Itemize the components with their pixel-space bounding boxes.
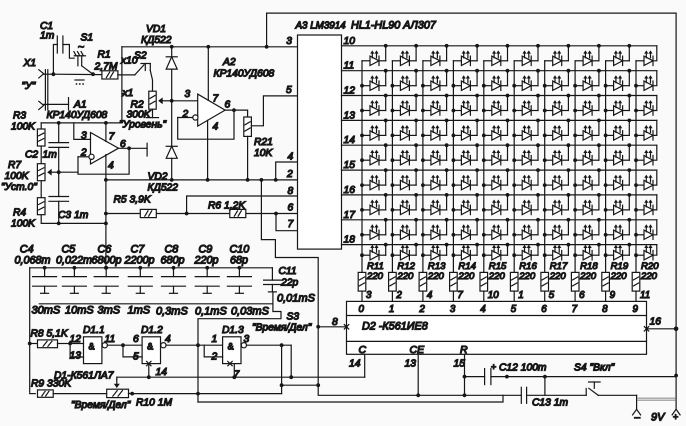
LM3914 pin4 wire: [276, 162, 298, 180]
svg-text:10: 10: [344, 36, 356, 47]
coax shield lines: [44, 70, 46, 110]
svg-text:680p: 680p: [161, 255, 185, 267]
svg-text:R9 330K: R9 330K: [31, 379, 72, 390]
LED HL28: [575, 94, 601, 116]
svg-text:0,068m: 0,068m: [15, 255, 51, 267]
op-amp A1 KR140UD608: [91, 133, 119, 165]
LED HL17: [545, 69, 571, 91]
D2 pin 2 stub: [391, 291, 393, 301]
LED HL51: [362, 168, 388, 190]
bus 13 right wrap to last LED: [653, 120, 657, 135]
svg-text:1m: 1m: [40, 31, 55, 42]
svg-text:5: 5: [133, 352, 139, 363]
svg-text:&: &: [147, 342, 153, 352]
svg-text:3: 3: [185, 89, 191, 100]
svg-text:R1: R1: [98, 50, 111, 61]
bus 14 right wrap to last LED: [653, 145, 657, 160]
LED HL26: [514, 94, 540, 116]
row bus pin 11: [342, 70, 657, 72]
svg-text:7: 7: [213, 94, 220, 105]
svg-text:S3: S3: [287, 312, 300, 323]
svg-text:4: 4: [480, 304, 486, 315]
D1.3 input wires pins 1 2: [204, 345, 222, 357]
svg-text:9: 9: [610, 290, 616, 301]
svg-text:R4: R4: [13, 208, 26, 219]
svg-text:1: 1: [212, 334, 218, 345]
svg-text:100K: 100K: [5, 171, 30, 182]
LED HL9: [606, 44, 632, 66]
A1 feedback loop: [78, 148, 129, 174]
svg-text:~: ~: [78, 41, 84, 53]
LED HL76: [514, 218, 540, 239]
D2 pin 6 stub: [574, 291, 576, 301]
svg-text:3: 3: [286, 36, 292, 47]
svg-text:A3 LM3914: A3 LM3914: [295, 21, 347, 32]
LED HL60: [636, 175, 653, 190]
LED HL56: [514, 168, 540, 190]
push switch S4 on: [585, 389, 587, 396]
svg-text:КД522: КД522: [141, 35, 172, 46]
LED HL25: [484, 94, 510, 116]
svg-text:4: 4: [213, 122, 219, 133]
D2 pin 10 stub: [483, 291, 485, 301]
battery 9V: [636, 395, 638, 409]
LM3914 pin7 wire: [276, 214, 298, 231]
D1.2 output pin 4: [166, 344, 223, 346]
svg-text:6: 6: [133, 334, 139, 345]
svg-text:0,022m: 0,022m: [56, 255, 92, 267]
LED HL42: [392, 143, 418, 165]
LED HL79: [606, 218, 632, 239]
LED HL20: [636, 75, 653, 90]
D2 pin 15 R wire: [464, 354, 466, 395]
bus 17 right wrap to last LED: [653, 220, 657, 235]
svg-text:8: 8: [288, 186, 294, 197]
LED HL16: [514, 69, 540, 91]
svg-text:"Время/Дел": "Время/Дел": [252, 323, 313, 334]
D2 pin 16 wire: [647, 328, 677, 330]
LED HL71: [362, 218, 388, 239]
resistor R18 220: [571, 272, 579, 291]
svg-text:R10 1M: R10 1M: [136, 398, 172, 409]
svg-text:220: 220: [396, 271, 414, 282]
svg-text:x10: x10: [120, 56, 138, 67]
link wire to D1.3 output vertical: [282, 384, 319, 386]
resistor R14 220: [450, 272, 458, 291]
capacitor C3 1m: [58, 172, 60, 196]
LED HL30: [636, 100, 653, 115]
svg-text:R3: R3: [13, 111, 26, 122]
LED HL5: [484, 44, 510, 66]
D2 pin 9 stub: [605, 291, 607, 301]
column line 4: [452, 61, 454, 273]
D2 pin 14 C wire: [364, 354, 366, 377]
svg-text:14: 14: [349, 359, 361, 370]
svg-text:6800p: 6800p: [92, 255, 122, 267]
R10 line to D1.3 vertical: [132, 393, 281, 395]
svg-text:14: 14: [156, 367, 168, 378]
svg-text:10K: 10K: [254, 148, 273, 159]
svg-text:5: 5: [549, 290, 555, 301]
D1.2 input wires pins 6 5: [123, 345, 142, 357]
resistor R1 2.7M: [102, 71, 118, 79]
svg-text:A2: A2: [222, 57, 236, 68]
pin2 long line: [106, 179, 298, 181]
LED HL72: [392, 218, 418, 239]
A1 pin4 / main left vertical: [105, 155, 107, 268]
svg-text:220: 220: [579, 271, 597, 282]
IC D2 K561IE8: [347, 301, 647, 354]
resistor R6 1.2K: [230, 209, 246, 217]
capacitor C6 6800p: [92, 244, 122, 294]
svg-text:220: 220: [366, 271, 384, 282]
D2 pin 4 stub: [422, 291, 424, 301]
capacitor C2 1m: [58, 123, 60, 143]
row bus pin 14: [342, 144, 657, 146]
LED HL48: [575, 143, 601, 165]
column line 10: [635, 61, 637, 273]
svg-text:C11: C11: [279, 266, 297, 277]
op-amp A2 KR140UD608: [198, 94, 225, 126]
potentiometer R2 300K level: [149, 91, 156, 109]
LED HL84: [453, 243, 479, 260]
svg-text:6: 6: [579, 290, 585, 301]
LED HL29: [606, 94, 632, 116]
A2 pin7 to rail: [207, 47, 209, 101]
power rail D1 pins: [117, 376, 365, 378]
LED HL4: [453, 44, 479, 66]
svg-text:CE: CE: [410, 344, 426, 356]
svg-text:X1: X1: [23, 58, 37, 69]
bus 11 right wrap to last LED: [653, 71, 657, 86]
LED HL73: [423, 218, 449, 239]
svg-text:2: 2: [395, 290, 402, 301]
svg-text:220: 220: [488, 271, 506, 282]
resistor R8 5.1K: [30, 343, 38, 345]
svg-text:КР140УД608: КР140УД608: [47, 110, 108, 121]
LED HL86: [514, 243, 540, 260]
capacitor C7 2200p: [124, 244, 155, 294]
resistor R3 100K: [40, 123, 42, 129]
vertical rail to A1 bias line: [121, 47, 123, 123]
LED HL77: [545, 218, 571, 239]
LED HL68: [575, 193, 601, 215]
LED HL57: [545, 168, 571, 190]
LED HL81: [362, 243, 388, 260]
svg-text:"У": "У": [22, 81, 37, 92]
svg-text:D1.3: D1.3: [222, 325, 244, 336]
resistor R16 220: [510, 272, 518, 291]
resistor R4 100K: [37, 198, 45, 215]
LED HL61: [362, 193, 388, 215]
svg-text:220: 220: [610, 271, 628, 282]
capacitor C10 68p: [227, 244, 251, 294]
LED HL3: [423, 44, 449, 66]
svg-text:+: +: [673, 412, 678, 422]
svg-text:D1.2: D1.2: [141, 325, 163, 336]
svg-text:4: 4: [165, 334, 171, 345]
svg-text:5: 5: [511, 304, 517, 315]
svg-text:9: 9: [633, 304, 639, 315]
svg-text:VD2: VD2: [148, 172, 168, 183]
LED HL15: [484, 69, 510, 91]
LED HL19: [606, 69, 632, 91]
svg-text:15: 15: [344, 160, 356, 171]
column line 8: [574, 61, 576, 273]
svg-text:3mS: 3mS: [98, 305, 121, 317]
svg-text:14: 14: [344, 135, 356, 146]
svg-text:5: 5: [286, 85, 292, 96]
gate D1.2: [142, 337, 160, 364]
LED HL43: [423, 143, 449, 165]
capacitor C1 1m: [53, 45, 57, 75]
LED HL34: [453, 119, 479, 141]
bus 15 right wrap to last LED: [653, 170, 657, 185]
LED HL85: [484, 243, 510, 260]
svg-text:7: 7: [234, 370, 241, 381]
LED HL62: [392, 193, 418, 215]
LED HL53: [423, 168, 449, 190]
LED HL44: [453, 143, 479, 165]
capacitor C11 22p: [271, 268, 273, 280]
svg-text:18: 18: [344, 235, 356, 246]
svg-text:&: &: [228, 342, 234, 352]
svg-text:4: 4: [108, 161, 114, 172]
svg-text:13: 13: [405, 359, 417, 370]
LED HL18: [575, 69, 601, 91]
column line 3: [422, 61, 424, 273]
svg-text:D2 -К561ИЕ8: D2 -К561ИЕ8: [362, 321, 428, 333]
svg-text:0,01mS: 0,01mS: [277, 293, 316, 305]
svg-text:8: 8: [602, 304, 608, 315]
svg-text:2: 2: [286, 169, 293, 180]
svg-text:100K: 100K: [11, 219, 36, 230]
LED HL12: [392, 69, 418, 91]
A2 pin4 wire: [207, 120, 209, 179]
LED HL70: [636, 200, 653, 215]
potentiometer R7 100K set-zero: [37, 164, 45, 181]
top supply rail to LM3914 pin 3: [122, 46, 298, 48]
bias line above A1: [41, 122, 122, 124]
IC A3 LM3914: [298, 35, 342, 249]
bus 16 right wrap to last LED: [653, 195, 657, 210]
LED HL22: [392, 94, 418, 116]
wire D1.3 output to D2 clock rail: [290, 345, 292, 377]
svg-text:15: 15: [454, 359, 466, 370]
bus 18 right wrap to last LED: [653, 245, 657, 256]
svg-text:"Уровень": "Уровень": [119, 120, 168, 131]
resistor R9 330K: [30, 393, 36, 395]
row bus pin 17: [342, 219, 657, 221]
svg-text:D1.1: D1.1: [83, 325, 105, 336]
svg-text:0: 0: [359, 304, 365, 315]
LED HL27: [545, 94, 571, 116]
resistor R11 220: [358, 272, 366, 291]
connector X1 shield pin: [39, 101, 44, 109]
LED HL6: [514, 44, 540, 66]
LED HL45: [484, 143, 510, 165]
A1 pin7 wire: [105, 123, 107, 142]
svg-text:HL1-HL90 АЛ307: HL1-HL90 АЛ307: [351, 20, 437, 32]
svg-text:22p: 22p: [280, 277, 298, 288]
svg-text:2: 2: [418, 304, 425, 315]
LED HL49: [606, 143, 632, 165]
LED HL66: [514, 193, 540, 215]
svg-text:220: 220: [549, 271, 567, 282]
bus 12 right wrap to last LED: [653, 96, 657, 111]
svg-text:"Время/Дел": "Время/Дел": [71, 400, 132, 411]
bus 10 right wrap to last LED: [653, 46, 657, 61]
svg-text:1: 1: [389, 304, 394, 315]
svg-text:R21: R21: [254, 137, 273, 148]
svg-text:10mS: 10mS: [65, 305, 94, 317]
column line 5: [483, 61, 485, 273]
resistor R17 220: [541, 272, 549, 291]
svg-text:6: 6: [225, 100, 231, 111]
svg-text:7: 7: [109, 132, 116, 143]
svg-text:12: 12: [344, 86, 356, 97]
column line 9: [605, 61, 607, 273]
left vertical from cap bus: [29, 268, 31, 393]
svg-text:220: 220: [640, 271, 658, 282]
A2 pin2 inverting input: [193, 115, 198, 120]
row bus pin 12: [342, 95, 657, 97]
LED HL10: [636, 50, 653, 65]
D2 pin 13 CE wire: [417, 354, 419, 395]
LED HL87: [545, 243, 571, 260]
svg-text:R8 5,1K: R8 5,1K: [31, 329, 69, 340]
LED HL39: [606, 119, 632, 141]
diode VD2 KD522: [171, 101, 173, 147]
capacitor C8 680p: [161, 244, 186, 294]
LED HL35: [484, 119, 510, 141]
LED HL31: [362, 119, 388, 141]
svg-text:&: &: [89, 342, 95, 352]
LM3914 pin8 wire: [187, 196, 298, 214]
svg-text:x1: x1: [122, 88, 134, 99]
D2 pin 1 stub: [513, 291, 515, 301]
LED HL55: [484, 168, 510, 190]
LED HL74: [453, 218, 479, 239]
svg-text:13: 13: [70, 351, 82, 362]
A1 output to x1 contact bar: [119, 147, 148, 149]
LED HL89: [606, 243, 632, 260]
S3 wiper bar: [39, 303, 273, 305]
LED HL11: [362, 69, 388, 91]
column line 2: [391, 61, 393, 273]
svg-text:1mS: 1mS: [128, 305, 151, 317]
svg-text:С13 1m: С13 1m: [532, 398, 568, 409]
svg-text:1: 1: [518, 290, 523, 301]
power frame wire around LED matrix: [267, 13, 676, 409]
svg-text:16: 16: [650, 317, 662, 328]
svg-text:6: 6: [541, 304, 547, 315]
LED HL40: [636, 125, 653, 140]
svg-text:1m: 1m: [43, 150, 58, 161]
LED HL69: [606, 193, 632, 215]
gate D1.1: [84, 337, 102, 364]
LED HL59: [606, 168, 632, 190]
svg-text:11: 11: [105, 334, 116, 345]
resistor R19 220: [602, 272, 610, 291]
LED HL36: [514, 119, 540, 141]
svg-text:7: 7: [457, 290, 463, 301]
svg-text:7: 7: [572, 304, 578, 315]
wire R1 to S2 pivot: [118, 74, 135, 76]
svg-text:S4 "Вкл": S4 "Вкл": [574, 363, 616, 374]
LED HL52: [392, 168, 418, 190]
svg-text:68p: 68p: [230, 255, 248, 267]
LED HL75: [484, 218, 510, 239]
LED HL24: [453, 94, 479, 116]
svg-text:3: 3: [244, 334, 250, 345]
LED HL21: [362, 94, 388, 116]
row bus pin 10: [342, 45, 657, 47]
svg-text:С2: С2: [25, 150, 38, 161]
resistor R21 10K: [244, 117, 252, 136]
resistor R5 3.9K: [140, 209, 156, 217]
S3 wiper connection to D1.2 output and lower rail: [198, 292, 281, 402]
svg-text:КР140УД608: КР140УД608: [214, 69, 275, 80]
capacitor C4 0,068m: [15, 244, 57, 294]
capacitor C5 0,022m: [56, 244, 92, 294]
D2 pin 8 wire: [318, 326, 346, 328]
gate D1.3: [223, 337, 241, 364]
LED HL78: [575, 218, 601, 239]
LED HL80: [636, 224, 653, 239]
svg-text:7: 7: [288, 219, 295, 230]
LED HL37: [545, 119, 571, 141]
LED HL46: [514, 143, 540, 165]
D1.3 output pin 3: [247, 344, 292, 346]
resistor R15 220: [480, 272, 488, 291]
svg-text:10: 10: [488, 290, 499, 301]
svg-text:220: 220: [457, 271, 475, 282]
svg-text:С12 100m: С12 100m: [499, 363, 547, 374]
svg-text:0,03mS: 0,03mS: [231, 306, 270, 318]
wire S2 to R2: [150, 71, 152, 92]
LED HL83: [423, 243, 449, 260]
A1 pin3 wire: [74, 123, 91, 139]
wire pin2 node to D2 pin8 and bottom rail: [261, 180, 521, 395]
D2 pin 5 stub: [544, 291, 546, 301]
svg-text:220: 220: [427, 271, 445, 282]
resistor R12 220: [389, 272, 397, 291]
LED HL7: [545, 44, 571, 66]
LED HL64: [453, 193, 479, 215]
svg-text:13: 13: [344, 110, 356, 121]
svg-text:3: 3: [450, 304, 456, 315]
svg-text:17: 17: [344, 210, 357, 221]
svg-text:VD1: VD1: [146, 24, 166, 35]
svg-text:2,7M: 2,7M: [94, 62, 118, 73]
D1.1 output pin 11: [107, 344, 142, 346]
wire input to R1: [53, 73, 102, 75]
svg-text:30mS: 30mS: [32, 305, 61, 317]
row bus pin 18: [342, 244, 657, 246]
capacitor C12 100m: [465, 376, 485, 378]
LM3914 pin5 wire: [251, 96, 297, 126]
capacitor bank top bus: [30, 267, 273, 269]
svg-text:0,1mS: 0,1mS: [195, 306, 227, 318]
D1.2 pin 14 power: [147, 361, 151, 365]
row bus pin 13: [342, 119, 657, 121]
svg-text:4: 4: [427, 290, 433, 301]
D1.3 pin 7 power: [228, 361, 232, 365]
row bus pin 15: [342, 169, 657, 171]
svg-text:R5 3,9K: R5 3,9K: [114, 195, 152, 206]
svg-text:8: 8: [332, 317, 338, 328]
